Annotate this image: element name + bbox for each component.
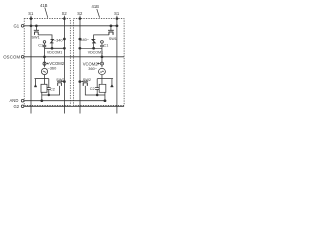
wire AND row bbox=[24, 100, 105, 102]
wire SW1 drain lead bbox=[35, 26, 37, 31]
wire box to AND row bbox=[41, 92, 43, 100]
svg-text:S2: S2 bbox=[77, 11, 83, 16]
transistor SW2 symbol bbox=[57, 81, 62, 86]
terminal AND bbox=[21, 99, 24, 102]
terminal VCOM2 circle bbox=[43, 62, 46, 65]
arrow down mark bbox=[34, 84, 37, 87]
svg-text:SW2: SW2 bbox=[56, 78, 64, 82]
wire S2' bus bbox=[79, 16, 81, 114]
wire zener to VCOM1 node bbox=[51, 43, 53, 48]
wire SW1 source to zener bbox=[38, 35, 52, 39]
wire SW2 to S2 bus bbox=[61, 81, 64, 83]
leader line 41B left bbox=[45, 8, 48, 18]
node OSCOM/C1 dot bbox=[44, 56, 46, 58]
terminal G1 bbox=[21, 25, 24, 28]
wire AC to bottom tee bbox=[44, 75, 46, 85]
component box M bbox=[41, 84, 47, 92]
AC source circle bbox=[41, 68, 47, 74]
svg-text:340~: 340~ bbox=[80, 37, 89, 42]
svg-text:OSCOM: OSCOM bbox=[3, 55, 20, 60]
transistor SW1 symbol bbox=[34, 30, 39, 35]
dashed cell box left (41B) bbox=[24, 19, 70, 106]
svg-text:SW1: SW1 bbox=[109, 37, 117, 41]
AC source tilde bbox=[43, 71, 46, 72]
wire G2 row bbox=[24, 105, 124, 107]
node SW2/S2 dot bbox=[63, 81, 65, 83]
node zener/VCOM1 dot bbox=[51, 47, 53, 49]
svg-text:C1: C1 bbox=[104, 43, 109, 47]
wire bottom collector bbox=[42, 86, 60, 95]
wire VCOM1 row bbox=[45, 47, 65, 49]
capacitor C1 bbox=[43, 43, 46, 57]
wire S1 bus bbox=[30, 16, 32, 114]
terminal OSCOM bbox=[21, 56, 24, 59]
svg-text:VDCOM1: VDCOM1 bbox=[88, 51, 103, 55]
svg-text:S2: S2 bbox=[62, 11, 68, 16]
svg-text:C1: C1 bbox=[38, 43, 43, 47]
switch SW1 drain dot bbox=[35, 25, 37, 27]
node AND dot bbox=[41, 100, 43, 102]
svg-text:VDCOM1: VDCOM1 bbox=[47, 50, 62, 54]
arrow VCOM2 bbox=[47, 63, 49, 65]
wire S1' bus bbox=[116, 16, 118, 114]
svg-text:C2: C2 bbox=[50, 88, 55, 92]
junction dots on dashed top edge bbox=[30, 18, 32, 20]
svg-text:S1: S1 bbox=[28, 11, 34, 16]
svg-text:~360: ~360 bbox=[48, 65, 58, 70]
capacitor C2 bbox=[47, 79, 51, 95]
leader line 41B right bbox=[97, 9, 100, 18]
node S1/G1 dot bbox=[30, 25, 32, 27]
node S2 mid dot bbox=[63, 38, 65, 40]
svg-text:41B: 41B bbox=[92, 4, 100, 9]
svg-text:G2: G2 bbox=[14, 104, 20, 109]
svg-text:SW1: SW1 bbox=[32, 36, 40, 40]
svg-text:AND: AND bbox=[10, 98, 19, 103]
dashed cell box right (41B) bbox=[73, 19, 124, 106]
wire VCOM2 drop bbox=[44, 57, 46, 67]
node collector dot bbox=[48, 94, 50, 96]
svg-text:SW2: SW2 bbox=[83, 78, 91, 82]
node VCOM1/S2 dot bbox=[63, 47, 65, 49]
svg-text:41B: 41B bbox=[40, 3, 48, 8]
svg-text:G1: G1 bbox=[14, 24, 20, 29]
svg-text:S1: S1 bbox=[114, 11, 120, 16]
wire bottom tee horizontal bbox=[35, 78, 49, 80]
zener diode 340 bbox=[51, 39, 54, 43]
svg-text:~340: ~340 bbox=[54, 38, 64, 43]
svg-text:C2: C2 bbox=[90, 87, 95, 91]
text labels bbox=[3, 3, 120, 109]
left cell contents bbox=[30, 18, 65, 102]
wire OSCOM row bbox=[24, 56, 124, 58]
capacitor C1 top circle bbox=[43, 41, 46, 44]
svg-text:360~: 360~ bbox=[88, 66, 97, 71]
terminal G2 bbox=[21, 105, 24, 108]
wire G1 row bbox=[24, 25, 117, 27]
wire S2 bus bbox=[63, 16, 65, 114]
right cell contents (mirrored copy) bbox=[79, 18, 118, 102]
wire left drop to arrow bbox=[35, 79, 37, 85]
